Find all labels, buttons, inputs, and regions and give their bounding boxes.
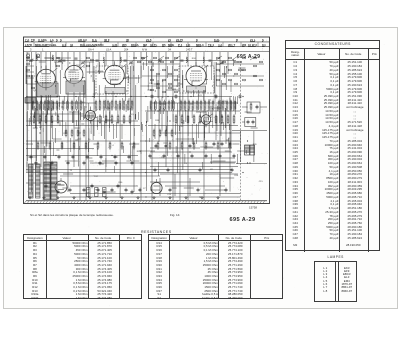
caption under schematic [30,213,114,217]
resistor R53 [129,114,131,124]
transformer core [49,162,51,200]
capacitor C16 [35,161,38,166]
ground [56,196,59,199]
resistor R69 [165,129,167,138]
capacitor [154,168,157,173]
resistor R8 [62,100,64,111]
capacitor C20 [99,161,102,166]
trimmer C1 [29,59,33,63]
resistor R79 [133,141,135,150]
resistor R2 [36,100,38,111]
resistor R9 [67,100,69,111]
right-mid wires [150,100,238,196]
capacitor C36 [175,94,178,99]
ground [28,196,31,199]
top strip row 2 labels [25,43,266,47]
IF1 primary [103,57,104,62]
capacitor [57,190,60,195]
IF2 primary [186,57,187,62]
resistor R13 [95,100,97,111]
svg-text:R16: R16 [119,182,124,184]
capacitor C4 [72,155,75,160]
resistor R25 [159,100,161,111]
resistor R44 [39,114,41,124]
resistor R77 [109,141,111,150]
capacitor C18 [67,161,70,166]
top strip rule 2 [24,46,270,48]
capacitor C8 [128,155,131,160]
resistor R19 [119,100,121,111]
svg-text:695 A-29: 695 A-29 [237,54,261,60]
resistor R31 [188,100,190,111]
density fill wires [27,62,251,176]
capacitor C29 [111,188,114,193]
capacitor [165,144,168,149]
capacitor C27 [83,188,86,193]
capacitor C24 [199,168,202,173]
oscillator coil S2 [52,55,53,60]
resistor R71 [37,141,39,150]
resistor R81 [169,141,171,150]
IF can K4 (dashed) [179,66,214,93]
chassis hatching [24,201,264,203]
resistor R73 [61,141,63,150]
capacitor C26 [69,188,72,193]
capacitor C7 [114,155,117,160]
resistor R50 [111,114,113,124]
resistor R7 [56,100,58,111]
capacitor C9 [149,154,152,159]
rectifier tube L7 [55,181,67,193]
capacitor C37 [215,94,218,99]
resistor R47 [57,114,59,124]
ground [136,196,139,199]
resistor R6 [52,100,54,111]
resistor R27 [168,100,170,111]
ground [104,196,107,199]
coil shield box 1 [37,83,58,97]
resistor R28 [173,100,175,111]
svg-text:204: 204 [124,48,129,52]
choke 2 [36,164,41,198]
svg-text:R12: R12 [64,133,69,135]
ground [72,196,75,199]
resistor R48 [99,114,101,124]
resistor R84 [205,141,207,150]
svg-text:R26: R26 [253,144,258,146]
resistor R82 [181,141,183,150]
resistor R38 [218,100,220,111]
capacitor [117,184,120,189]
svg-text:C23: C23 [167,194,172,196]
trimmer C5 [158,59,162,63]
dropper resistor R28 [103,188,106,197]
svg-text:1: 1 [42,48,44,52]
figure number [170,213,179,217]
resistor R52 [123,114,125,124]
junction dots [26,96,250,198]
capacitor C30 [125,188,128,193]
resistor R68 [159,129,161,138]
resistor R33 [196,100,198,111]
resistor R1 [32,100,34,111]
resistor R37 [212,100,214,111]
svg-text:R14: R14 [234,175,239,177]
resistor R16 [107,100,109,111]
capacitor C21 [115,161,118,166]
indicator tube L8 [151,182,162,193]
resistor R75 [85,141,87,150]
long rule y60.5 [26,60,236,62]
ground [184,196,187,199]
dropper resistor R27 [95,188,98,197]
resistor R36 [208,100,210,111]
capacitor C19 [83,161,86,166]
power transformer secondary [51,162,57,200]
choke 1 [29,164,34,198]
resistor R49 [105,114,107,124]
tube L6 small triode [199,111,213,128]
resistor R10 [71,100,73,111]
capacitor C12 [191,154,194,159]
ground [120,196,123,199]
output transformer primary [245,145,250,155]
earth terminal [36,54,40,58]
capacitor C38 [239,94,242,99]
resistor R59 [215,114,217,124]
resistor R41 [230,100,232,111]
resistor [250,102,252,111]
IF can K3 (dashed) [96,66,128,94]
capacitor C35 [151,94,154,99]
resistor R85 [217,141,219,150]
svg-text:243 T: 243 T [186,48,193,52]
core band vertical stubs [27,96,238,144]
capacitor C32 [169,188,172,193]
resistor R58 [199,114,201,124]
dropper resistor R26 [87,188,90,197]
output transformer box [240,131,242,162]
capacitor C5 [86,155,89,160]
resistor R65 [77,129,79,138]
capacitor [155,144,158,149]
svg-text:4: 4 [112,145,114,147]
resistor R72 [49,141,51,150]
svg-text:C35: C35 [180,126,185,128]
svg-text:34: 34 [168,48,171,52]
resistor R4 [44,100,46,111]
coil shield box 2 [66,81,85,94]
svg-text:N W: N W [142,48,148,52]
resistor R62 [233,114,235,124]
capacitor [256,105,259,110]
svg-text:R1: R1 [27,53,31,55]
resistor R61 [227,114,229,124]
tube L3 EBC3 detector [103,61,127,88]
resistor R45 [45,114,47,124]
capacitor C14 [219,154,222,159]
chassis line [26,200,267,202]
ground [42,196,45,199]
ground [216,196,219,199]
resistor R24 [155,100,157,111]
capacitor [189,144,192,149]
capacitor C6 [100,155,103,160]
top strip rule 1 [24,41,270,43]
RESISTANCES title [141,230,172,234]
resistor R86 [229,141,231,150]
resistor R3 [40,100,42,111]
resistor R51 [117,114,119,124]
vertical wires [26,52,235,200]
resistor R66 [83,129,85,138]
resistor R57 [193,114,195,124]
trimmer C6 [220,61,224,65]
right column dashed lead [240,61,242,200]
IF2 secondary [203,57,204,62]
ground [152,196,155,199]
tube L1 ECH3 mixer [35,65,58,91]
resistor R12 [80,100,82,111]
title 695 A-29 (bottom) [230,217,256,223]
resistor R35 [204,100,206,111]
resistor R60 [221,114,223,124]
CONDENSATEURS table [285,40,380,251]
capacitor C22 [131,161,134,166]
resistor R30 [184,100,186,111]
resistor R76 [97,141,99,150]
top strip row 1 labels [25,38,264,42]
resistor R15 [103,100,105,111]
capacitor C3 [58,155,61,160]
capacitor C25 [231,168,234,173]
capacitor C10 [163,154,166,159]
IF1 secondary [120,57,121,62]
antenna coil S1 [36,55,37,60]
resistor R26 [164,100,166,111]
svg-text:3: 3 [186,163,188,165]
capacitor C1 [30,155,33,160]
resistor R43 [33,114,35,124]
svg-text:GA 4: GA 4 [88,48,94,52]
resistor R20 [123,100,125,111]
capacitor C31 [139,188,142,193]
svg-text:R24: R24 [192,58,197,60]
capacitor [131,190,134,195]
capacitor [45,184,48,189]
RESISTANCES right table [148,234,283,300]
resistor R54 [175,114,177,124]
resistor R14 [99,100,101,111]
capacitor [213,142,216,147]
resistor R34 [200,100,202,111]
component value annotations [27,53,263,196]
top strip row 3 labels [30,48,193,52]
trimmer C4 [129,61,133,65]
tube L5 small triode [84,107,98,124]
capacitor [247,120,250,125]
svg-text:C7: C7 [143,188,147,190]
resistor R83 [193,141,195,150]
right column cluster: tone filter [247,102,260,113]
resistor R11 [76,100,78,111]
resistor R32 [192,100,194,111]
capacitor [252,120,255,125]
resistor R46 [51,114,53,124]
resistor R39 [222,100,224,111]
capacitor [221,142,224,147]
power transformer primary [44,162,50,200]
resistor R18 [115,100,117,111]
resistor R64 [71,129,73,138]
trimmer C3 [81,61,85,65]
grey can side bar 1 [131,62,134,106]
resistor R21 [127,100,129,111]
horizontal bus wires [26,58,267,197]
svg-text:25: 25 [70,170,73,172]
capacitor C11 [177,154,180,159]
resistor R40 [226,100,228,111]
padder capacitors top [63,60,66,61]
svg-text:C17: C17 [94,176,99,178]
capacitor [91,184,94,189]
resistor R5 [48,100,50,111]
grey can side bar 2 [214,62,217,102]
resistor R29 [180,100,182,111]
capacitor C15 [233,154,236,159]
resistor R23 [150,100,152,111]
pin dots top [26,62,234,91]
capacitor [103,190,106,195]
terminal strip block [25,98,36,104]
svg-text:15758: 15758 [249,206,257,210]
LAMPES table [314,261,358,302]
capacitor C34 [225,188,228,193]
resistor R22 [131,100,133,111]
resistor R67 [153,129,155,138]
LAMPES title [328,255,344,259]
capacitor C23 [167,168,170,173]
ground [168,196,171,199]
ground [200,196,203,199]
svg-text:L5 A: L5 A [106,48,111,52]
capacitor [229,142,232,147]
resistor R74 [73,141,75,150]
resistor R56 [187,114,189,124]
ground [88,196,91,199]
shield bar tube4 [187,86,206,92]
tube L4 EL3 output [184,62,208,89]
shield bar tube3 [105,88,125,94]
capacitor C13 [205,154,208,159]
resistor R70 [171,129,173,138]
resistor R42 [234,100,236,111]
svg-text:50: 50 [88,139,91,141]
svg-text:C28: C28 [106,108,111,110]
strip ticks [34,42,258,46]
resistor R17 [111,100,113,111]
svg-text:3: 3 [30,48,32,52]
capacitor C2 [44,155,47,160]
scan speckle (decorative) [19,29,384,307]
svg-text:R7: R7 [39,127,43,129]
capacitor C28 [97,188,100,193]
RESISTANCES left table [23,234,142,300]
resistor R63 [65,129,67,138]
resistor R80 [157,141,159,150]
antenna terminal [26,54,30,59]
resistor R55 [181,114,183,124]
band switch contacts [27,57,263,93]
tube L2 EF9 IF amp [63,62,85,87]
svg-text:C39: C39 [149,83,154,85]
top strip rule 3 [24,51,270,53]
svg-text:C15: C15 [259,181,264,183]
output transformer secondary [250,145,255,155]
switch wafer lines [26,56,264,86]
schematic frame [24,37,270,204]
resistor R78 [121,141,123,150]
svg-text:2: 2 [247,107,249,109]
trimmer C2 [58,59,62,63]
capacitor C17 [51,161,54,166]
capacitor C33 [197,188,200,193]
